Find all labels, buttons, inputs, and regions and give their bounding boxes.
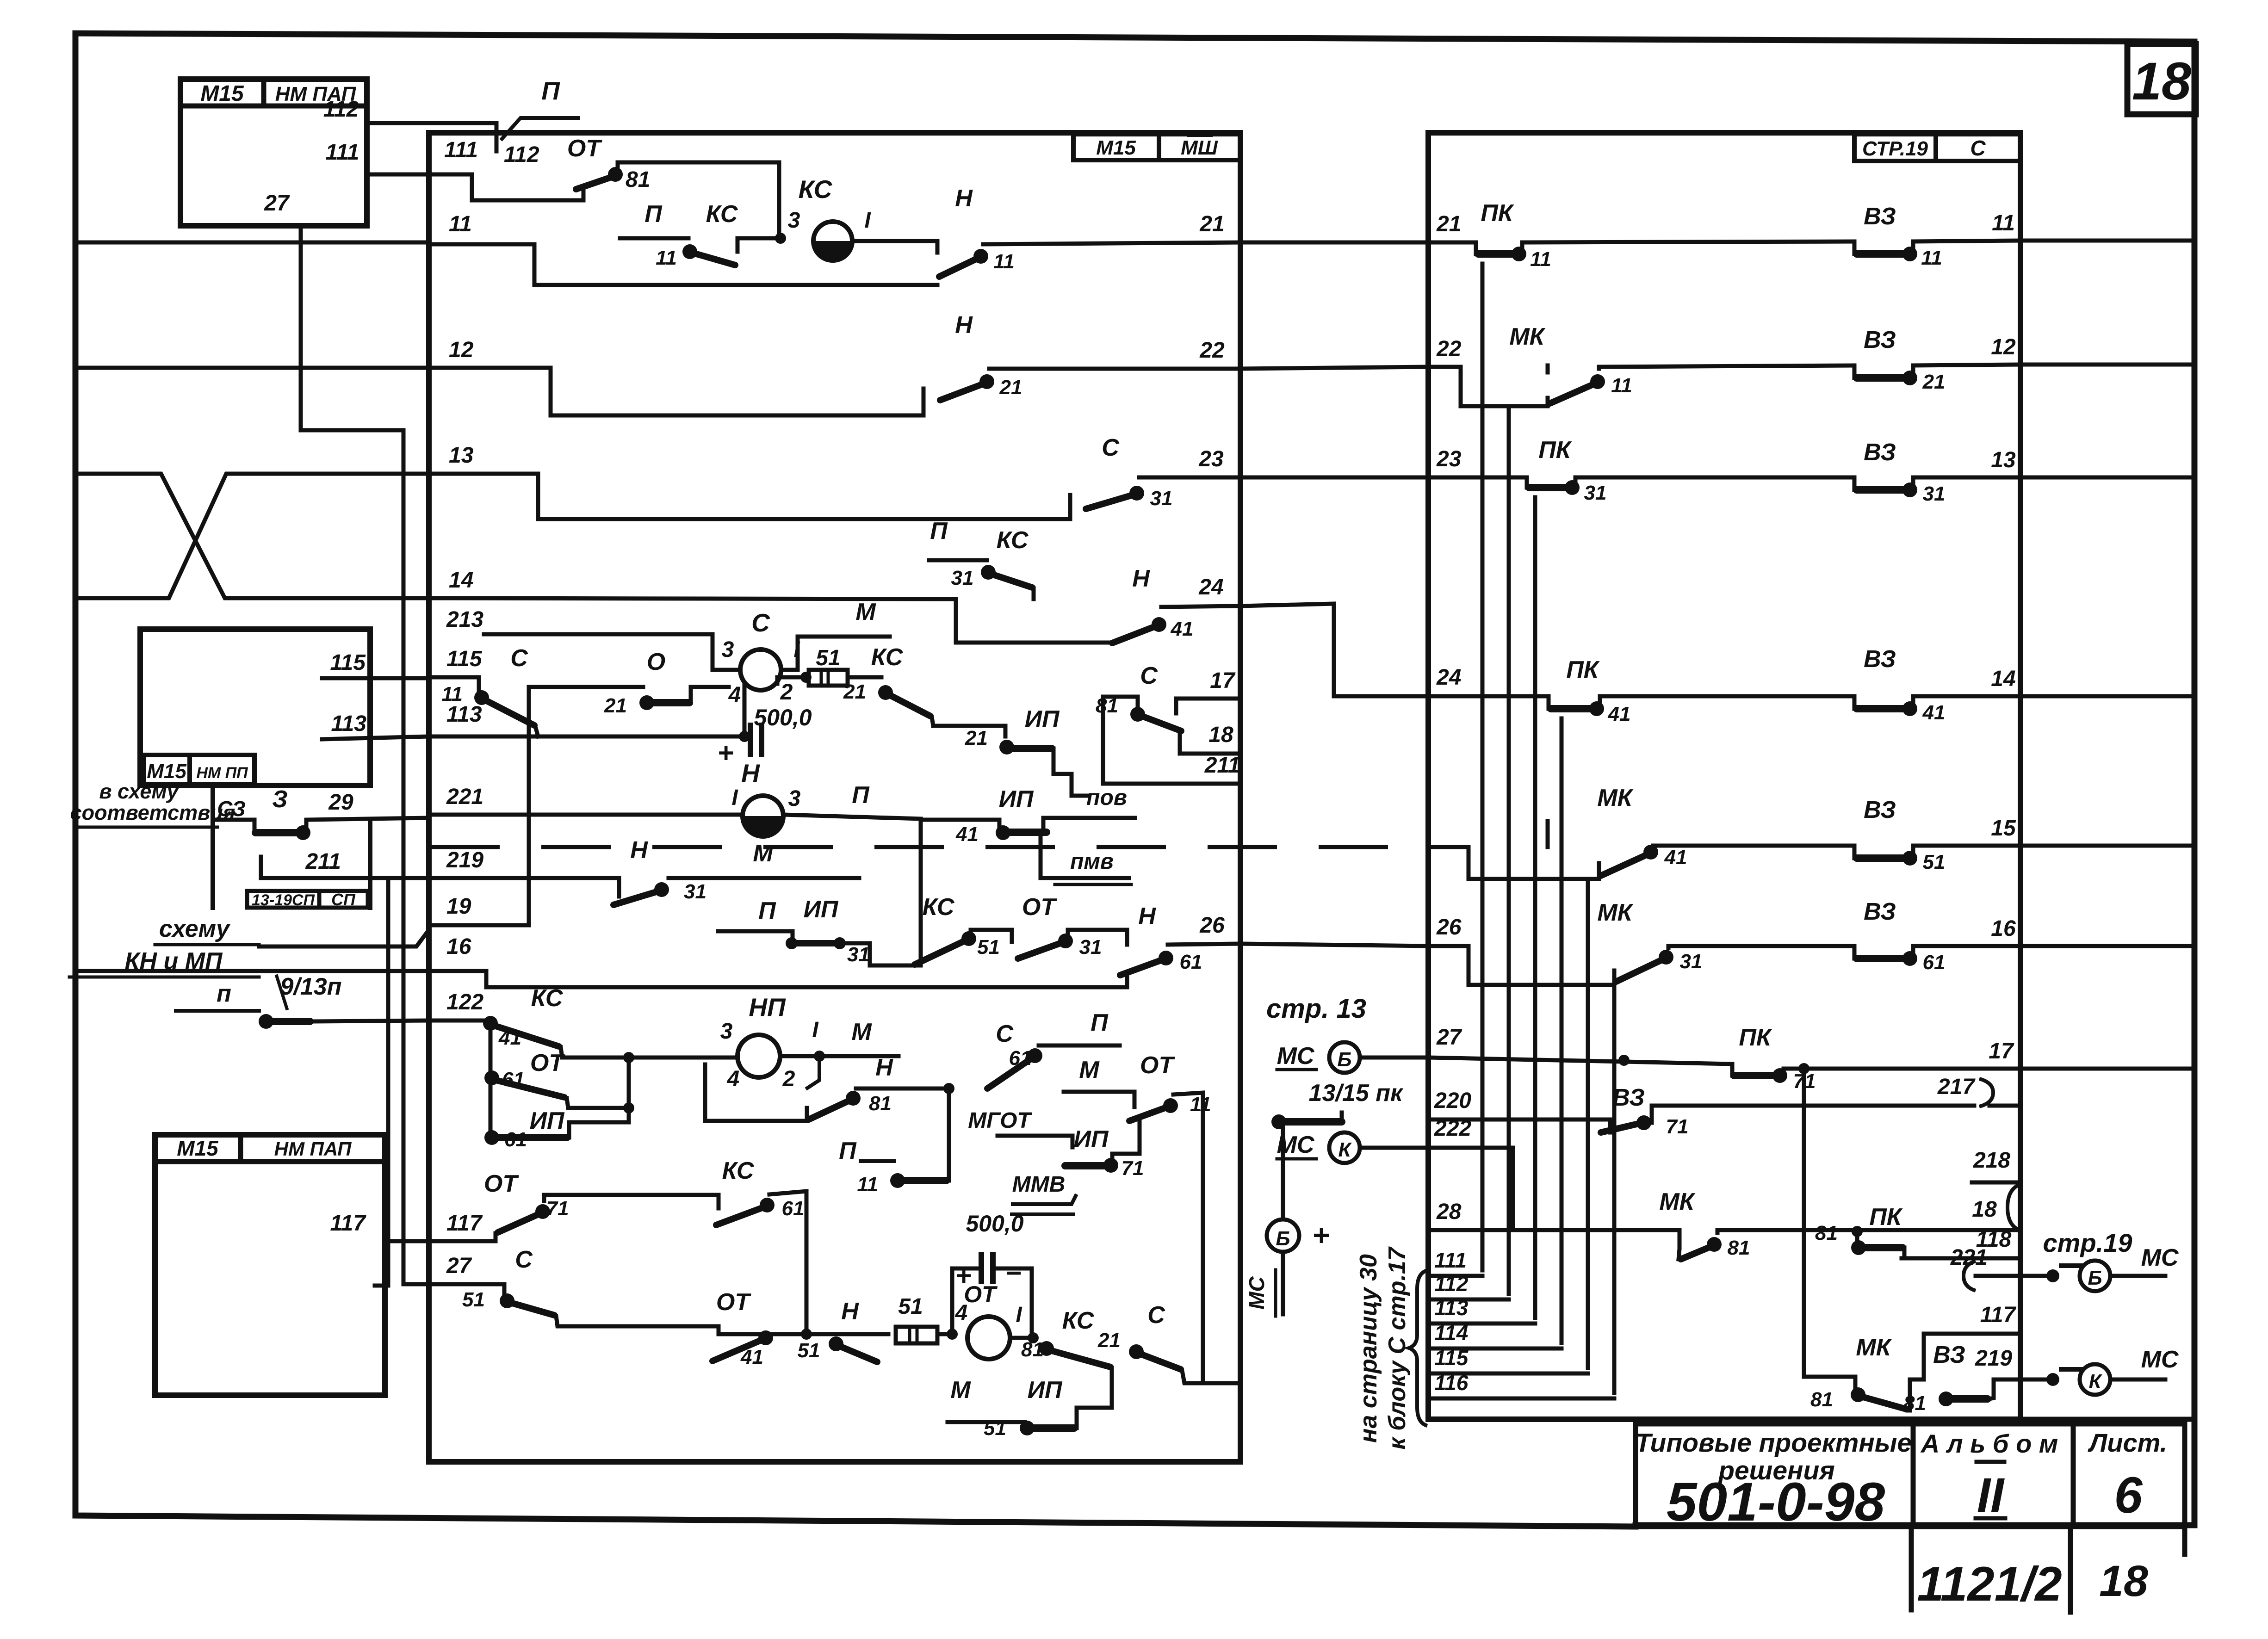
svg-text:115: 115: [1434, 1346, 1469, 1370]
svg-text:3: 3: [722, 637, 734, 662]
wire bus 213: [484, 634, 713, 657]
label 24 row14 right: [1198, 575, 1223, 600]
indicator МС Б circle: [1277, 1042, 1428, 1073]
wire row117 right: [1924, 1303, 2020, 1379]
svg-text:МК: МК: [1509, 323, 1545, 350]
contact ОТ 11 lower: [1064, 1052, 1211, 1383]
label 23 gap: [1436, 447, 1462, 471]
note стр 13: [1266, 994, 1366, 1024]
svg-text:222: 222: [1434, 1116, 1471, 1141]
svg-text:в схему: в схему: [99, 779, 179, 803]
label 219 central: [446, 848, 483, 872]
svg-text:31: 31: [951, 567, 974, 589]
svg-text:I: I: [731, 785, 738, 810]
svg-text:КС: КС: [706, 201, 738, 228]
contact ВЗ 11 row11r: [1854, 203, 2020, 269]
label 21 gap: [1436, 212, 1461, 236]
svg-text:ВЗ: ВЗ: [1933, 1342, 1965, 1368]
label 218 right: [1972, 1148, 2020, 1231]
wire НП pin4 down: [705, 1064, 807, 1121]
contact ОТ 31 row26: [1018, 894, 1127, 959]
node НП input junction: [623, 1052, 634, 1122]
svg-text:117: 117: [330, 1211, 366, 1236]
label pin 113 midbox: [331, 711, 366, 736]
contact МК 31 row26: [1428, 899, 1854, 985]
wire bus 19 inside: [429, 687, 529, 925]
svg-text:Б: Б: [1276, 1227, 1290, 1250]
svg-text:П: П: [644, 201, 663, 228]
svg-text:Н: Н: [741, 759, 760, 787]
contact ВЗ 31 row13r: [1854, 439, 2020, 505]
svg-text:218: 218: [1973, 1148, 2010, 1173]
svg-text:М: М: [855, 599, 876, 625]
svg-text:61: 61: [1180, 951, 1202, 973]
contact ВЗ 21 row12r: [1854, 327, 2020, 393]
svg-text:Б: Б: [1337, 1048, 1351, 1071]
contact ПК 71 row27: [1732, 1024, 1816, 1093]
svg-text:ВЗ: ВЗ: [1864, 203, 1896, 230]
svg-text:М15: М15: [200, 81, 244, 106]
label 22 gap: [1436, 337, 1462, 361]
svg-text:П: П: [930, 518, 948, 544]
contact МК 41 row25: [1469, 785, 1854, 879]
svg-text:41: 41: [1922, 701, 1946, 724]
svg-text:21: 21: [1199, 212, 1224, 236]
svg-text:221: 221: [446, 785, 483, 809]
wire bus 117 row: [446, 1239, 496, 1243]
svg-text:Н: Н: [1132, 565, 1150, 592]
svg-text:11: 11: [857, 1173, 878, 1196]
title block cell Лист 6: [2073, 1424, 2185, 1527]
label 26 gap: [1436, 915, 1462, 940]
svg-text:П: П: [758, 897, 776, 924]
label 11 right: [1992, 211, 2015, 235]
wire row219 right: [1975, 1346, 2082, 1399]
contact КС 21 mid: [843, 644, 933, 726]
relay С lamp: [722, 608, 801, 707]
svg-text:81: 81: [869, 1092, 892, 1115]
svg-text:ОТ: ОТ: [484, 1170, 519, 1197]
svg-text:115: 115: [446, 647, 483, 671]
svg-text:9/13п: 9/13п: [280, 973, 342, 1000]
svg-text:23: 23: [1198, 447, 1224, 471]
relay ОТ lamp: [967, 1303, 1022, 1359]
label 16 central: [446, 934, 471, 959]
svg-text:116: 116: [1434, 1371, 1469, 1395]
svg-text:51: 51: [798, 1339, 820, 1362]
svg-text:НМ ПП: НМ ПП: [196, 764, 248, 782]
contact ВЗ 61 row16r: [1854, 898, 2020, 974]
svg-text:81: 81: [1810, 1388, 1833, 1411]
svg-text:17: 17: [1989, 1039, 2014, 1064]
svg-text:Н: Н: [841, 1298, 859, 1325]
svg-text:А л ь б о м: А л ь б о м: [1920, 1429, 2058, 1458]
svg-text:ИП: ИП: [1028, 1377, 1063, 1404]
svg-text:3: 3: [788, 208, 800, 233]
svg-text:6: 6: [2114, 1467, 2143, 1524]
contact ИП 31 row26: [718, 896, 921, 966]
wire row221 right: [1950, 1245, 2082, 1291]
wire bus 12 left: [75, 366, 429, 370]
svg-text:217: 217: [1937, 1075, 1976, 1099]
svg-text:МК: МК: [1856, 1334, 1892, 1361]
contact Н 61 row26: [1120, 903, 1240, 975]
wire 19 stub: [259, 930, 429, 946]
wire bus 14 inside: [429, 598, 1112, 643]
svg-text:СП: СП: [331, 890, 356, 909]
svg-text:11: 11: [1921, 247, 1942, 269]
svg-text:113: 113: [1434, 1296, 1469, 1320]
svg-text:С: С: [1970, 136, 1986, 160]
label 18 right: [1972, 1197, 1997, 1222]
svg-text:17: 17: [1210, 668, 1236, 693]
wire С pin3: [713, 657, 740, 670]
svg-text:28: 28: [1436, 1200, 1462, 1224]
svg-text:стр. 13: стр. 13: [1266, 994, 1366, 1024]
svg-text:МГОТ: МГОТ: [968, 1108, 1032, 1133]
svg-text:501-0-98: 501-0-98: [1667, 1472, 1885, 1533]
contact С 61 П lower: [987, 1009, 1120, 1089]
contact ИП 71 МГОТ: [968, 1108, 1144, 1180]
svg-text:ВЗ: ВЗ: [1864, 797, 1896, 823]
contact КС 41 нп: [483, 985, 629, 1058]
resistor 51 lower: [896, 1294, 951, 1343]
label 27 central: [446, 1254, 472, 1278]
wire bus 27 row: [403, 1282, 504, 1286]
svg-text:к блоку С стр.17: к блоку С стр.17: [1384, 1246, 1411, 1449]
svg-text:61: 61: [1923, 951, 1946, 974]
label 13 right: [1991, 448, 2016, 472]
svg-text:29: 29: [328, 790, 353, 815]
contact Н 81 lower: [807, 1054, 954, 1121]
svg-text:219: 219: [1975, 1346, 2012, 1371]
svg-text:81: 81: [1903, 1392, 1926, 1415]
contact ОТ 71 row117: [484, 1170, 719, 1241]
supply Б plus: [1245, 1122, 1330, 1316]
svg-text:схему: схему: [159, 915, 231, 942]
crossover X bus13 bus14: [75, 474, 429, 598]
svg-text:11: 11: [656, 247, 677, 269]
contact МК 81 row28: [1659, 1188, 2020, 1259]
contact ВЗ 41 row14r: [1854, 646, 2020, 724]
contact ВЗ 51 row15r: [1854, 797, 2020, 873]
svg-text:ИП: ИП: [530, 1107, 565, 1134]
wire КС81 down link: [1077, 1368, 1112, 1408]
indicator Б МС right: [2080, 1244, 2179, 1291]
svg-text:КС: КС: [799, 175, 833, 204]
svg-text:II: II: [1977, 1468, 2005, 1522]
wire row24 gap: [1240, 604, 1428, 696]
wire 113 bottom: [1432, 1296, 1535, 1324]
svg-text:51: 51: [462, 1288, 485, 1311]
svg-text:112: 112: [504, 142, 539, 167]
label 15 right: [1991, 816, 2016, 841]
svg-text:113: 113: [331, 711, 366, 736]
wire 211 branch to bottom box: [375, 878, 388, 1286]
svg-text:С: С: [996, 1021, 1014, 1047]
svg-text:П: П: [839, 1138, 857, 1164]
note к блоку С стр17: [1384, 1246, 1411, 1449]
wire row22 gap: [1240, 367, 1428, 369]
contact С 31 row13: [1070, 434, 1240, 519]
label pin 117 botbox: [330, 1211, 366, 1236]
label 12 right: [1991, 335, 2016, 359]
contact ПК 81 row28: [1815, 1204, 1904, 1258]
svg-text:ВЗ: ВЗ: [1864, 439, 1896, 466]
svg-text:18: 18: [2099, 1557, 2148, 1606]
wire 17 stub: [1176, 668, 1240, 713]
wire row217 stub: [1989, 1104, 2020, 1108]
svg-text:16: 16: [446, 934, 471, 959]
svg-text:13: 13: [449, 443, 474, 468]
block right box: [1428, 133, 2020, 1419]
svg-text:21: 21: [999, 376, 1022, 399]
svg-text:Н: Н: [1138, 903, 1156, 930]
contact КС 51 row26: [915, 894, 1012, 965]
wire НП feed: [629, 1056, 736, 1060]
svg-text:НМ ПАП: НМ ПАП: [274, 1138, 352, 1160]
svg-text:31: 31: [1150, 487, 1173, 510]
contact О 21: [604, 649, 729, 717]
wire 114 bottom: [1432, 1321, 1562, 1348]
svg-text:КС: КС: [1062, 1307, 1095, 1334]
svg-text:ПК: ПК: [1538, 437, 1572, 464]
label 14 in box: [449, 568, 473, 593]
svg-text:на страницу 30: на страницу 30: [1355, 1254, 1382, 1443]
note схему КН и МП: [69, 915, 259, 977]
svg-text:ВЗ: ВЗ: [1864, 646, 1896, 673]
indicator МС К circle: [1277, 1132, 1428, 1163]
svg-text:13: 13: [1991, 448, 2016, 472]
svg-text:стр.19: стр.19: [2043, 1228, 2132, 1257]
svg-text:КС: КС: [722, 1157, 755, 1184]
svg-text:СЗ: СЗ: [217, 797, 246, 821]
wire row15 to border: [2020, 844, 2194, 848]
wire П down to row26: [919, 819, 923, 965]
label 213: [446, 607, 483, 632]
svg-text:21: 21: [1922, 371, 1946, 393]
svg-text:ОТ: ОТ: [716, 1289, 751, 1316]
contact ВЗ 81 bottom right: [1903, 1342, 1988, 1415]
svg-text:219: 219: [446, 848, 483, 872]
wire row23 gap: [1240, 476, 1428, 480]
wire НП pin2 stub: [807, 1056, 819, 1088]
wire vertical 115 chain: [1586, 879, 1590, 1368]
wire pin 27 down: [301, 226, 403, 1284]
contact Н 11 row11: [939, 185, 1240, 277]
wire bus 115 inside: [429, 675, 479, 680]
svg-text:21: 21: [604, 694, 627, 717]
label 22 row12 right: [1199, 338, 1225, 363]
wire 111 bus: [472, 174, 583, 200]
svg-text:ИП: ИП: [1025, 706, 1060, 733]
svg-text:31: 31: [1923, 482, 1946, 505]
svg-text:71: 71: [1122, 1157, 1144, 1180]
wire bus 12 inside: [429, 368, 923, 415]
svg-text:С: С: [1140, 662, 1158, 689]
indicator К МС right: [2080, 1346, 2179, 1395]
svg-text:ММВ: ММВ: [1012, 1172, 1066, 1197]
svg-text:211: 211: [1204, 753, 1240, 778]
label 220 gap: [1434, 1089, 1471, 1113]
svg-text:122: 122: [446, 990, 483, 1014]
svg-text:МК: МК: [1659, 1188, 1695, 1215]
wire vertical 111 chain: [1481, 264, 1485, 1270]
svg-text:ОТ: ОТ: [1140, 1052, 1175, 1079]
block М15-НМПАП bottom-left box: [155, 1135, 385, 1395]
svg-text:71: 71: [546, 1197, 569, 1220]
label 117 central: [446, 1211, 483, 1236]
title block cell Альбом II: [1913, 1424, 2073, 1527]
svg-text:С: С: [515, 1246, 533, 1273]
block М15-НМПАП top-left box: [180, 79, 367, 226]
svg-text:М15: М15: [1096, 136, 1136, 159]
svg-text:117: 117: [446, 1211, 483, 1236]
block central box: [429, 133, 1240, 1462]
svg-text:51: 51: [1923, 851, 1946, 873]
svg-text:К: К: [1338, 1138, 1352, 1161]
svg-text:П: П: [852, 782, 870, 809]
node З junction КС: [775, 208, 800, 244]
svg-text:14: 14: [1991, 667, 2015, 691]
wire row21 gap: [1240, 241, 1428, 245]
wire КС pin1: [852, 241, 937, 253]
svg-text:41: 41: [1171, 618, 1194, 640]
svg-text:ОТ: ОТ: [530, 1050, 565, 1076]
svg-text:15: 15: [1991, 816, 2016, 841]
label 23 row13 right: [1198, 447, 1224, 471]
svg-text:26: 26: [1436, 915, 1462, 940]
svg-text:М: М: [753, 840, 774, 867]
wire vertical 113 chain: [1533, 497, 1537, 1318]
svg-text:16: 16: [1991, 916, 2016, 941]
wire row11 to border: [2020, 239, 2194, 243]
wire pin 117 botbox: [385, 1239, 446, 1243]
label pin 112: [323, 97, 359, 122]
wire 111 bottom: [1432, 1248, 1482, 1276]
svg-text:КС: КС: [531, 985, 564, 1012]
wire 116 bottom: [1432, 1371, 1614, 1398]
svg-text:МС: МС: [2141, 1244, 2179, 1271]
svg-text:112: 112: [323, 97, 359, 122]
svg-text:11: 11: [449, 212, 472, 236]
svg-text:23: 23: [1436, 447, 1462, 471]
contact С 81 cluster: [1096, 662, 1181, 784]
wire С pin1 to М: [781, 599, 890, 670]
wire 211: [261, 857, 429, 878]
svg-text:2: 2: [780, 680, 793, 705]
svg-text:МК: МК: [1597, 785, 1633, 811]
label 26 right: [1199, 913, 1225, 938]
svg-text:МС: МС: [1277, 1132, 1315, 1158]
svg-text:31: 31: [1680, 950, 1703, 973]
wire НП pin1 М: [781, 1019, 899, 1062]
label 11 in box: [449, 212, 472, 236]
svg-text:М: М: [1079, 1057, 1100, 1083]
label 28 gap: [1436, 1200, 1462, 1224]
label pin 27: [264, 191, 290, 216]
svg-text:112: 112: [1434, 1272, 1469, 1296]
wire row27: [1428, 1055, 1732, 1066]
svg-text:13/15 пк: 13/15 пк: [1309, 1080, 1404, 1107]
svg-text:31: 31: [1079, 936, 1102, 959]
contact З on wire 29: [214, 786, 429, 840]
contact С 21 lower: [1097, 1302, 1240, 1383]
svg-text:ОТ: ОТ: [964, 1281, 998, 1307]
contact ПК 41 row24: [1428, 656, 1854, 725]
wire П line from Н: [783, 782, 921, 819]
wire row26 gap: [1240, 944, 1428, 946]
label 13 in box: [449, 443, 474, 468]
node cap junction 4: [947, 1301, 967, 1340]
svg-text:18: 18: [1208, 723, 1233, 747]
label 113 central: [446, 702, 482, 727]
svg-text:Н: Н: [630, 837, 648, 864]
svg-text:51: 51: [898, 1294, 923, 1319]
svg-text:МС: МС: [1277, 1043, 1315, 1070]
svg-text:21: 21: [843, 680, 866, 703]
svg-text:Н: Н: [955, 185, 973, 212]
svg-text:Н: Н: [955, 312, 973, 339]
label 21 row11 right: [1199, 212, 1224, 236]
svg-text:31: 31: [684, 880, 706, 903]
title block lower cells 1121/2 and 18: [1911, 1527, 2185, 1612]
svg-text:ИП: ИП: [1074, 1126, 1109, 1153]
svg-text:К: К: [2088, 1370, 2102, 1393]
svg-text:22: 22: [1436, 337, 1462, 361]
label 16 right: [1991, 916, 2016, 941]
contact ПК 31 row23: [1428, 437, 1854, 504]
svg-text:Н: Н: [875, 1054, 893, 1081]
contact ИП 51 bottom: [948, 1377, 1077, 1440]
svg-text:МШ: МШ: [1181, 136, 1218, 159]
svg-text:2: 2: [782, 1067, 795, 1091]
title block top line: [1428, 1417, 2194, 1422]
wire row220: [1428, 1118, 1610, 1122]
contact ОТ 81 on 111: [567, 135, 779, 238]
label pin 111: [326, 140, 359, 165]
svg-text:СТР.19: СТР.19: [1862, 137, 1928, 160]
wire pin 111: [367, 173, 472, 177]
svg-text:11: 11: [993, 250, 1015, 273]
contact ИП 41 пов пмв: [921, 785, 1135, 884]
svg-text:11: 11: [1530, 248, 1551, 271]
label 122 central: [446, 990, 483, 1014]
relay КС lamp: [799, 175, 872, 260]
wire row12 to border: [2020, 363, 2194, 367]
svg-text:П: П: [541, 76, 560, 105]
wire 18 stub: [1180, 723, 1240, 754]
wire КС21 to ИП21: [933, 726, 1005, 736]
svg-text:3: 3: [720, 1019, 733, 1044]
wire pin 115 midbox: [322, 676, 429, 680]
wire vertical ПК71 down: [1802, 1069, 1806, 1377]
svg-text:114: 114: [1434, 1321, 1468, 1345]
svg-text:24: 24: [1198, 575, 1223, 600]
contact ИП 61 нп: [484, 1076, 629, 1151]
wire О line: [529, 685, 643, 689]
svg-text:11: 11: [1611, 374, 1632, 397]
svg-text:МС: МС: [1245, 1276, 1269, 1309]
svg-text:27: 27: [264, 191, 290, 216]
svg-text:пмв: пмв: [1070, 849, 1114, 874]
wire bus 25 dashed: [430, 845, 1469, 849]
svg-text:МС: МС: [2141, 1346, 2179, 1373]
svg-text:31: 31: [847, 943, 870, 966]
contact Н 21 row12: [923, 312, 1240, 415]
svg-text:11: 11: [1992, 211, 2015, 235]
svg-text:81: 81: [626, 167, 650, 192]
